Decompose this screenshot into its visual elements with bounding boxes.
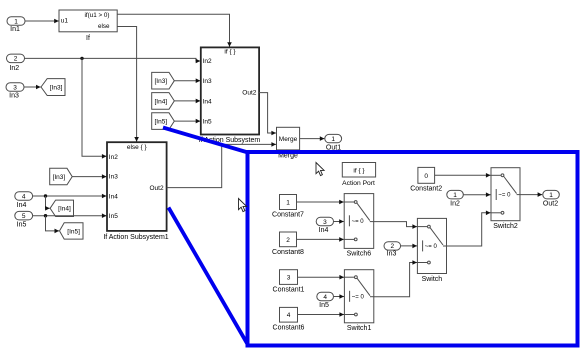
svg-text:Constant6: Constant6 xyxy=(273,324,305,331)
goto block In4 xyxy=(50,200,73,216)
svg-text:Merge: Merge xyxy=(279,136,298,143)
svg-text:In2: In2 xyxy=(450,201,460,208)
svg-text:~= 0: ~= 0 xyxy=(425,244,438,250)
wire In4 to If Action Subsystem1 xyxy=(33,194,107,199)
wire In3 to Switch input2 xyxy=(401,244,417,249)
svg-text:If: If xyxy=(86,35,90,42)
svg-text:u1: u1 xyxy=(61,18,69,25)
svg-text:~= 0: ~= 0 xyxy=(498,193,511,199)
wire In5 to If Action Subsystem1 xyxy=(33,213,107,218)
wire Constant7 to Switch6 input1 xyxy=(297,200,344,205)
svg-text:else { }: else { } xyxy=(127,144,148,151)
svg-text:In2: In2 xyxy=(109,154,118,161)
svg-text:Action Port: Action Port xyxy=(342,180,375,187)
outport Out2 inset xyxy=(543,190,560,207)
svg-text:1: 1 xyxy=(14,18,18,25)
constant Constant2 xyxy=(410,167,442,192)
wire Constant2 to Switch2 input1 xyxy=(435,173,491,178)
svg-text:Switch6: Switch6 xyxy=(347,251,372,258)
subsystem If Action Subsystem xyxy=(199,47,261,143)
svg-text:In4: In4 xyxy=(319,227,329,234)
svg-text:3: 3 xyxy=(323,219,327,226)
wire from In4 to subsystem xyxy=(174,99,200,104)
wire In3 to goto xyxy=(24,85,41,90)
wire In5 to Switch1 input2 xyxy=(334,294,344,299)
constant Constant8 xyxy=(272,232,304,256)
inport In4 xyxy=(15,192,33,209)
inport In3 xyxy=(6,83,24,100)
svg-text:In3: In3 xyxy=(203,78,212,85)
svg-text:Constant7: Constant7 xyxy=(272,212,304,219)
wire Switch to Switch2 input3 xyxy=(447,211,491,247)
svg-text:Switch1: Switch1 xyxy=(347,325,372,332)
wire from In5 to subsystem xyxy=(174,119,200,124)
svg-text:1: 1 xyxy=(331,136,335,143)
from block In5 upper xyxy=(152,113,175,130)
wire from In3 to subsystem xyxy=(174,78,200,83)
svg-text:In2: In2 xyxy=(9,65,19,72)
constant Constant7 xyxy=(272,195,304,219)
svg-text:5: 5 xyxy=(22,213,26,220)
wire else output to If Action Subsystem1 trigger xyxy=(117,27,139,142)
goto block In3 xyxy=(41,79,65,96)
svg-text:3: 3 xyxy=(13,84,17,91)
svg-text:Out2: Out2 xyxy=(150,185,164,192)
svg-text:In1: In1 xyxy=(10,26,20,33)
svg-text:3: 3 xyxy=(287,274,291,281)
svg-text:if { }: if { } xyxy=(353,167,365,174)
goto block In5 xyxy=(60,223,84,239)
svg-text:Out2: Out2 xyxy=(242,90,256,97)
svg-text:~= 0: ~= 0 xyxy=(352,295,365,301)
svg-text:In5: In5 xyxy=(17,222,27,229)
svg-text:4: 4 xyxy=(22,193,26,200)
wire Switch2 to Out2 xyxy=(520,192,542,197)
wire Out2 subsystem1 to Merge input2 xyxy=(167,142,276,188)
svg-text:Switch: Switch xyxy=(422,276,443,283)
svg-text:~= 0: ~= 0 xyxy=(352,219,365,225)
switch Switch2 xyxy=(491,168,520,230)
svg-text:[In3]: [In3] xyxy=(53,174,66,181)
mouse cursor left xyxy=(239,199,247,212)
inport In5 inset xyxy=(317,292,334,309)
wire Constant8 to Switch6 input3 xyxy=(297,237,344,242)
callout line upper xyxy=(163,128,248,153)
svg-text:In3: In3 xyxy=(387,250,397,257)
svg-text:Constant2: Constant2 xyxy=(410,186,442,193)
svg-text:In4: In4 xyxy=(109,193,118,200)
wire Merge to Out1 xyxy=(300,136,325,141)
svg-text:if(u1 > 0): if(u1 > 0) xyxy=(84,12,109,19)
svg-text:If Action Subsystem1: If Action Subsystem1 xyxy=(103,234,168,241)
svg-text:1: 1 xyxy=(453,192,457,199)
svg-text:In5: In5 xyxy=(109,213,118,220)
svg-text:In2: In2 xyxy=(203,58,212,65)
wire In1 to If block xyxy=(25,19,59,24)
inset border xyxy=(248,152,578,346)
constant Constant1 xyxy=(273,270,305,294)
from block In4 upper xyxy=(152,93,175,110)
inport In2 inset xyxy=(447,190,464,207)
inport In4 inset xyxy=(316,217,333,234)
merge block Merge xyxy=(277,127,300,159)
wire In2 branch to If Action Subsystem1 xyxy=(82,58,107,158)
svg-text:4: 4 xyxy=(287,312,291,319)
svg-text:[In5]: [In5] xyxy=(67,228,80,235)
svg-text:Switch2: Switch2 xyxy=(493,223,518,230)
if block If xyxy=(59,10,117,42)
svg-text:In4: In4 xyxy=(203,98,212,105)
svg-text:1: 1 xyxy=(549,192,553,199)
svg-text:In5: In5 xyxy=(203,119,212,126)
switch Switch6 xyxy=(344,194,374,258)
svg-text:2: 2 xyxy=(14,56,18,63)
svg-text:In3: In3 xyxy=(109,173,118,180)
switch Switch1 xyxy=(344,270,373,332)
wire from In3 to subsystem1 xyxy=(72,174,106,179)
callout line lower xyxy=(169,208,249,346)
svg-text:if { }: if { } xyxy=(224,49,236,56)
svg-text:[In5]: [In5] xyxy=(154,119,167,126)
svg-text:4: 4 xyxy=(323,294,327,301)
wire In5 branch to goto xyxy=(46,216,60,234)
wire Constant1 to Switch1 input1 xyxy=(298,275,345,280)
wire In2 to If Action Subsystem xyxy=(25,57,201,64)
from block In3 lower xyxy=(50,168,72,185)
subsystem If Action Subsystem1 xyxy=(103,142,168,241)
svg-text:Constant8: Constant8 xyxy=(272,249,304,256)
svg-text:[In4]: [In4] xyxy=(154,98,167,105)
wire In2 to Switch2 input2 xyxy=(463,192,490,197)
svg-text:[In3]: [In3] xyxy=(50,85,63,92)
svg-text:1: 1 xyxy=(286,199,290,206)
svg-text:2: 2 xyxy=(286,237,290,244)
wire In4 branch to goto xyxy=(45,196,50,211)
wire In4 to Switch6 input2 xyxy=(334,219,344,224)
inport In3 inset xyxy=(384,242,401,258)
wire if output to If Action Subsystem trigger xyxy=(117,14,232,47)
svg-text:else: else xyxy=(98,23,110,30)
wire Constant6 to Switch1 input3 xyxy=(298,312,345,317)
svg-text:[In3]: [In3] xyxy=(154,78,167,85)
wire Switch6 to Switch input1 xyxy=(374,222,417,229)
wire Out2 to Merge input1 xyxy=(259,93,276,136)
svg-text:0: 0 xyxy=(424,173,428,180)
svg-text:Out2: Out2 xyxy=(543,201,558,208)
inport In1 xyxy=(7,17,25,33)
constant Constant6 xyxy=(273,307,305,331)
svg-text:Constant1: Constant1 xyxy=(273,287,305,294)
inport In2 xyxy=(7,54,25,72)
svg-text:2: 2 xyxy=(390,243,394,250)
svg-text:In3: In3 xyxy=(9,92,19,99)
mouse cursor inset xyxy=(316,163,324,176)
action port block xyxy=(342,163,375,187)
outport Out1 xyxy=(325,134,342,151)
inport In5 xyxy=(15,211,33,228)
from block In3 upper xyxy=(152,72,175,89)
svg-text:[In4]: [In4] xyxy=(58,206,71,213)
wire Switch1 to Switch input3 xyxy=(374,260,417,297)
switch Switch xyxy=(417,218,446,282)
svg-text:In5: In5 xyxy=(319,302,329,309)
svg-text:In4: In4 xyxy=(17,202,27,209)
